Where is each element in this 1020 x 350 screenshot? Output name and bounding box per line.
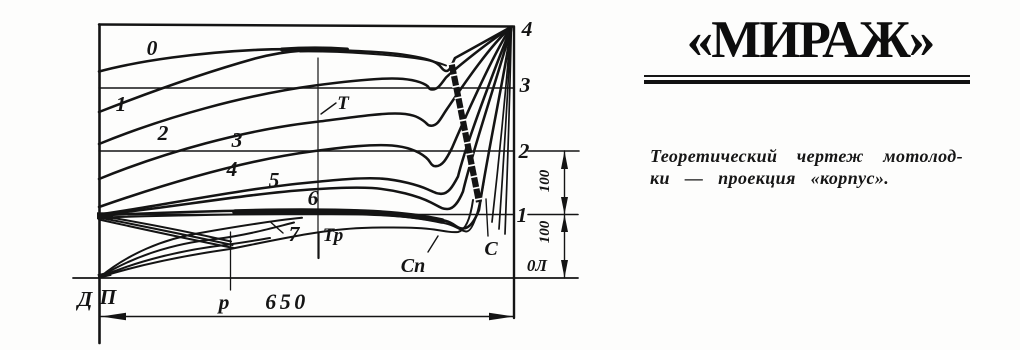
dimension 100 vertical line [564,151,566,278]
svg-text:С: С [484,238,498,260]
dimension 650 line [101,316,514,318]
curve 5 [99,28,511,215]
svg-text:1: 1 [116,92,127,116]
svg-text:Сп: Сп [401,255,425,277]
frame top (waterline 4) [99,25,513,27]
drawing svg [0,0,620,350]
band bottom line [99,180,484,232]
label T leader [321,103,336,114]
caption text [650,145,966,189]
arrowhead 100 top up [561,151,568,169]
waterline 1 [99,214,514,216]
arrowhead 650 right [489,313,514,321]
transom ladder band [452,63,480,202]
transom fan line 2 [499,27,511,229]
title МИРАЖ [650,10,970,70]
curve 0 sheer line [99,27,511,72]
station line T [317,58,319,232]
curve 1 [99,51,300,112]
svg-text:6: 6 [308,186,319,210]
svg-text:Д: Д [76,287,94,311]
bow knot blob [97,212,113,219]
waterline 2 [99,150,514,152]
keel wedge line b [99,218,233,246]
svg-text:Т: Т [337,93,350,114]
curve 3 [99,27,511,179]
svg-text:4: 4 [226,157,238,181]
transom fan line 3 [505,27,511,234]
svg-text:2: 2 [518,139,530,163]
curve 2 [99,27,511,144]
waterline 3 [99,87,514,89]
curve 0 thick crest segment [282,48,347,49]
bow fan line 4 chine [100,200,473,277]
waterline 1 right tick [528,214,578,216]
svg-text:4: 4 [521,17,533,41]
svg-text:100: 100 [537,169,553,192]
arrowhead 650 left [101,313,126,321]
waterline 2 right tick [528,150,579,152]
deck inner edge line [300,51,446,65]
ladder rungs (white) [452,63,480,202]
svg-text:2: 2 [157,121,169,145]
arrowhead 100 mid up [561,215,568,233]
svg-text:П: П [99,285,118,309]
curve 4 [99,28,511,208]
label Сп leader [428,236,438,252]
bow fan line 1 [100,218,302,277]
curve 6 [99,28,511,216]
double rule thin [644,75,970,77]
arrowhead 100 mid down [561,197,568,215]
bow fan line 3 [100,238,270,277]
svg-text:Тр: Тр [323,225,344,246]
svg-text:3: 3 [519,73,531,97]
frame left (stem line ДП) [98,25,101,344]
bow foot blob [98,274,111,277]
svg-text:3: 3 [231,128,243,152]
station tick Tp [317,233,319,258]
svg-text:0Л: 0Л [527,256,549,275]
svg-text:650: 650 [265,289,309,314]
svg-text:1: 1 [517,203,528,227]
bow fan line 2 [100,223,294,278]
baseline 0Л [73,277,578,279]
arrowhead 100 bottom down [561,260,568,278]
keel wedge line c [99,220,234,249]
svg-text:р: р [217,290,230,314]
svg-text:7: 7 [289,222,301,246]
double rule thick [644,80,970,84]
curve 7 band top [99,28,511,229]
svg-text:5: 5 [269,168,280,192]
station line p [230,232,232,290]
svg-text:0: 0 [147,36,158,60]
frame right axis [513,27,515,319]
svg-text:100: 100 [537,220,553,243]
transom fan line 1 [492,27,511,222]
band thick crest [235,211,442,221]
label 7 leader [271,223,283,234]
label С leader [486,199,488,236]
keel wedge line a [99,216,231,242]
